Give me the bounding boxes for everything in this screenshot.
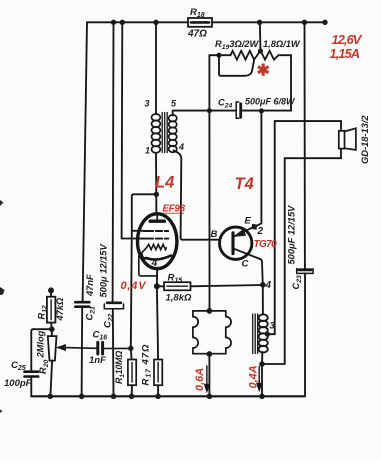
- wire cathode node down to R17: [157, 286, 158, 359]
- node dot R19 left: [216, 53, 221, 58]
- svg-text:T4: T4: [235, 175, 254, 193]
- wire R19 right lead down to C24 line: [279, 55, 292, 110]
- node dot coil tap 3: [265, 332, 270, 337]
- wire long right line from rail to C23: [304, 22, 306, 268]
- wire C21 to ground rail: [81, 307, 84, 397]
- tube heater zigzag: [147, 244, 167, 249]
- wire junction to C25: [31, 329, 52, 370]
- wire heater supply line down through barretter: [208, 111, 210, 397]
- wire speaker bottom: [262, 158, 341, 364]
- resistor R12: [47, 297, 56, 323]
- wire coil bottom to ground junction: [261, 352, 263, 396]
- svg-text:L4: L4: [155, 174, 174, 192]
- wire R1 to ground rail: [131, 385, 133, 396]
- wire emitter feed from C24 junction down to point 2: [254, 111, 261, 227]
- svg-text:500μ 12/15V: 500μ 12/15V: [99, 244, 109, 298]
- node dot barretter top: [207, 308, 213, 314]
- resistor R1: [128, 360, 136, 386]
- node dot C24 left junction: [207, 108, 212, 113]
- svg-text:GD-18-13/2: GD-18-13/2: [360, 115, 370, 164]
- resistor R19 zigzag: [231, 51, 279, 60]
- transformer core: [162, 113, 167, 153]
- svg-text:3: 3: [270, 321, 275, 331]
- svg-text:1,8kΩ: 1,8kΩ: [166, 293, 192, 304]
- svg-text:C: C: [242, 259, 249, 270]
- svg-text:✱: ✱: [257, 63, 270, 80]
- svg-text:47Ω: 47Ω: [187, 29, 207, 40]
- wire tap line to speaker top: [267, 121, 274, 334]
- node dot anode junction: [154, 192, 159, 197]
- transistor emitter with arrow: [234, 227, 254, 237]
- svg-text:E: E: [245, 216, 252, 227]
- transistor T4 circle: [220, 227, 252, 259]
- svg-text:4: 4: [265, 280, 272, 291]
- tube grid row g3 dashes: [144, 230, 169, 232]
- svg-text:0,4V: 0,4V: [121, 280, 148, 292]
- wire screen supply branch A down to C22: [112, 22, 115, 301]
- svg-text:0,4A: 0,4A: [248, 365, 260, 388]
- svg-text:500μF 12/15V: 500μF 12/15V: [287, 205, 297, 265]
- potentiometer wiper arrow to C16: [57, 345, 96, 351]
- transistor collector: [234, 249, 263, 285]
- svg-text:1,8Ω/1W: 1,8Ω/1W: [263, 39, 301, 49]
- vacuum tube L4 envelope: [138, 214, 177, 269]
- svg-text:500μF 6/8W: 500μF 6/8W: [245, 97, 296, 107]
- scan mark left edge 1: [0, 200, 4, 206]
- capacitor C22 electrolytic: [104, 303, 123, 309]
- svg-text:TG70: TG70: [254, 239, 278, 250]
- wire cathode node to R15: [157, 285, 164, 287]
- svg-text:0,6A: 0,6A: [194, 368, 206, 391]
- scan mark left edge 2: [0, 287, 5, 295]
- tube anode bar: [150, 219, 164, 222]
- potentiometer R20 body: [48, 329, 57, 396]
- node dot pot top junction: [49, 326, 55, 332]
- node dot C16 junction: [128, 346, 133, 351]
- node junction dots on top rail: [111, 20, 328, 25]
- svg-text:R17 47Ω: R17 47Ω: [141, 344, 153, 386]
- capacitor C24 electrolytic: [236, 102, 241, 118]
- wire C25 to ground rail corner: [30, 377, 32, 397]
- node dot emitter feed junction: [259, 108, 264, 113]
- tube cathode arc: [141, 254, 171, 260]
- resistor R18: [188, 18, 212, 27]
- capacitor C23 electrolytic: [297, 269, 313, 274]
- wire R17 to ground rail: [157, 385, 159, 396]
- wire node 4 down to output coil: [262, 285, 264, 315]
- svg-text:4: 4: [178, 142, 184, 152]
- transformer Tr secondary winding (pins 5-4): [169, 115, 177, 152]
- capacitor C16: [98, 342, 103, 354]
- wire from rail down to R19 junction: [259, 22, 262, 50]
- capacitor C21: [75, 302, 89, 307]
- output coil winding: [259, 314, 268, 352]
- wire top supply rail right of R18: [212, 21, 325, 23]
- capacitor C25: [25, 372, 39, 377]
- svg-text:1nF: 1nF: [89, 355, 106, 366]
- current arrow 0.4A: [257, 367, 261, 391]
- wire C16 to grid node: [104, 347, 130, 349]
- node dot coil bottom: [259, 361, 265, 367]
- wire cathode lead down to 0.4V node: [156, 269, 158, 287]
- svg-text:47kΩ: 47kΩ: [55, 297, 65, 322]
- transformer Tr primary winding (pins 3-1): [152, 114, 161, 153]
- wire anode node to grid G1 (feedback line): [131, 194, 157, 359]
- node terminal dot input R12: [48, 287, 54, 293]
- wire transformer pin3 from rail: [155, 22, 157, 114]
- wire C22 to ground rail: [112, 309, 115, 397]
- wire R19 left terminal to heater node: [209, 55, 219, 110]
- wire R12 top lead: [50, 290, 52, 296]
- svg-text:100pF: 100pF: [4, 378, 32, 389]
- node dot cathode 0.4V: [154, 283, 160, 289]
- svg-text:1,15A: 1,15A: [330, 46, 360, 61]
- scan mark left edge 3: [0, 410, 3, 414]
- node dot at R19 tap junction: [258, 48, 263, 53]
- tube anode lead: [156, 214, 158, 220]
- loudspeaker GD-18-13/2: [339, 121, 356, 158]
- svg-text:2Mlog: 2Mlog: [36, 330, 46, 358]
- node dot barretter bottom: [207, 351, 213, 357]
- wire R12 bottom to pot junction: [50, 323, 53, 330]
- wire heater lead exiting tube: [139, 247, 157, 276]
- wire R19 left lead: [219, 54, 231, 56]
- wire left supply branch down to C21: [83, 22, 87, 301]
- resistor R17: [154, 360, 162, 386]
- current arrow 0.6A: [205, 366, 209, 391]
- underline EF98: [163, 212, 185, 215]
- wire R15 to node 4: [191, 285, 263, 286]
- transistor base bar: [231, 233, 234, 254]
- resistor R15: [164, 282, 191, 290]
- terminal dot point 2: [251, 224, 257, 230]
- wire pin1 lead to anode node: [155, 153, 157, 214]
- svg-text:47nF: 47nF: [85, 274, 95, 297]
- wire C24 horizontal line: [209, 110, 291, 112]
- svg-text:2: 2: [257, 226, 264, 237]
- ground bottom rail: [31, 395, 305, 397]
- wire C23 bottom to ground rail: [304, 273, 306, 396]
- wire speaker top: [275, 120, 341, 122]
- tube grid row g2 dashes: [140, 238, 168, 240]
- wire top supply rail left of R18: [87, 21, 188, 23]
- wire screen grid branch B: [122, 22, 140, 238]
- wire shorting strap across R19 section: [219, 55, 254, 76]
- wire pin4 lead down to transistor base: [174, 151, 220, 240]
- svg-text:4: 4: [151, 257, 158, 269]
- svg-text:3: 3: [145, 99, 150, 109]
- wire pin5 lead to C24 node: [173, 111, 210, 116]
- node dots on ground rail: [48, 394, 265, 400]
- svg-text:B: B: [211, 229, 218, 240]
- svg-text:1: 1: [145, 146, 150, 156]
- node dot 4: [260, 282, 266, 288]
- output coil core: [253, 314, 258, 354]
- barretter (current regulator) jigsaw box: [193, 311, 231, 354]
- svg-text:12,6V: 12,6V: [332, 32, 363, 47]
